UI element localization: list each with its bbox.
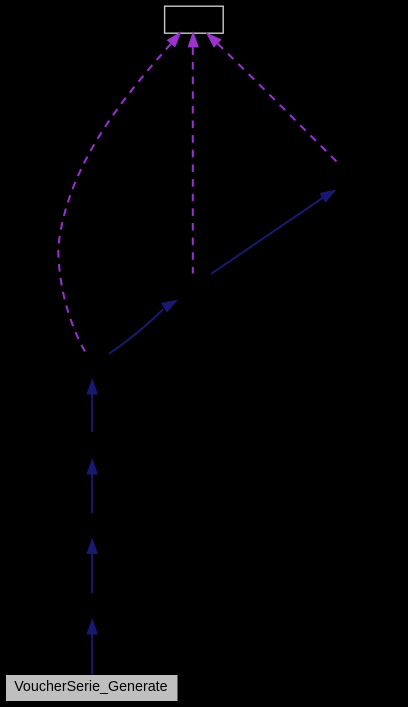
wire: blue chain edge 2 xyxy=(91,475,93,514)
arrowhead chain 1 xyxy=(86,378,98,395)
wire: solid blue edge node A to node B xyxy=(109,310,163,354)
wire: blue chain edge 4 (bottom) xyxy=(91,635,93,675)
wire: dashed diagonal edge node C to main box xyxy=(218,44,337,162)
arrowhead blue edge B-C xyxy=(320,189,337,203)
arrowhead blue edge A-B xyxy=(161,300,178,313)
node main (top box, empty) xyxy=(165,6,224,33)
arrowhead of diagonal dashed edge xyxy=(206,32,222,47)
wire: solid blue edge node B to node C xyxy=(211,198,323,274)
arrowhead of vertical dashed edge xyxy=(188,31,199,47)
arrowhead chain 3 xyxy=(86,538,98,555)
node VoucherSerie_Generate (bottom box) xyxy=(6,675,178,701)
svg-text:VoucherSerie_Generate: VoucherSerie_Generate xyxy=(14,679,167,695)
wire: dashed curved edge node A to main box xyxy=(58,44,171,352)
arrowhead of curved edge xyxy=(167,31,182,47)
wire: blue chain edge 1 (topmost) xyxy=(91,395,93,433)
arrowhead chain 4 xyxy=(86,618,98,635)
wire: dashed vertical edge node B to main box xyxy=(192,47,194,273)
wire: blue chain edge 3 xyxy=(91,554,93,593)
arrowhead chain 2 xyxy=(86,458,98,475)
